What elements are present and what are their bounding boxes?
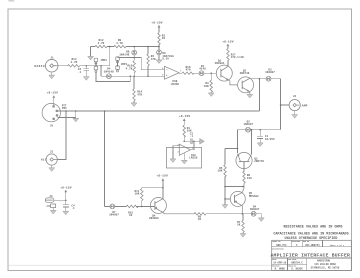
- title block: [272, 240, 352, 270]
- wire Q1 collector to R17: [227, 61, 229, 67]
- resistor R11 10K pull-up: [135, 188, 163, 207]
- svg-text:+8-15V: +8-15V: [60, 186, 72, 189]
- power +8-15V over R17: [222, 40, 234, 46]
- wire D8 jog to op-amp minus input: [118, 58, 165, 70]
- svg-text:6: 6: [162, 68, 163, 70]
- jumper JMP3: [94, 58, 107, 72]
- svg-text:1N4148: 1N4148: [119, 54, 129, 57]
- long signal line MIC to D3 node: [58, 79, 260, 111]
- wire U1A input to ground: [170, 146, 179, 163]
- J4 sleeve contact to ground: [46, 204, 56, 214]
- svg-text:4.7K: 4.7K: [98, 42, 105, 45]
- resistor R15 1K: [126, 205, 138, 217]
- wire R6 node left to base line: [225, 186, 244, 188]
- svg-text:150: 150: [247, 177, 252, 180]
- resistor R9 4.7K: [114, 39, 126, 48]
- svg-text:STARKVILLE, MS 39759: STARKVILLE, MS 39759: [311, 267, 340, 270]
- wire D1 to Q1 base: [204, 72, 216, 74]
- wire R16 to D1: [194, 72, 199, 74]
- resistor R6 150: [242, 171, 252, 192]
- svg-text:LM358: LM358: [189, 157, 197, 160]
- ground under J2: [292, 111, 298, 119]
- svg-text:J1: J1: [50, 56, 54, 59]
- power +8-15V at J4 node: [60, 186, 72, 204]
- svg-text:470: 470: [185, 69, 190, 72]
- wire JMP3 bottom to op-amp plus jog: [96, 73, 130, 82]
- svg-text:+8-15V: +8-15V: [151, 22, 163, 25]
- notes text block: [273, 226, 348, 241]
- svg-text:2: 2: [178, 152, 179, 154]
- wire Q1 emitter to Q2 base: [229, 80, 238, 85]
- svg-text:HRD754.C: HRD754.C: [291, 262, 303, 265]
- wire to R5 top: [225, 148, 238, 150]
- svg-text:1K: 1K: [237, 224, 241, 227]
- power jack J4: [45, 195, 54, 202]
- resistor R4 47K: [147, 47, 156, 77]
- svg-text:MIC: MIC: [62, 107, 67, 110]
- svg-text:sheet 1 of 1: sheet 1 of 1: [330, 244, 345, 247]
- capacitor C3 .1 with chassis arrow: [184, 133, 204, 145]
- resistor R3 10K to ground: [204, 73, 214, 96]
- svg-text:10K: 10K: [218, 170, 223, 173]
- wire R8 to Q5 node: [206, 213, 251, 215]
- svg-text:.1: .1: [78, 71, 82, 74]
- output diode line: D2 1N4007: [238, 120, 281, 132]
- transistor Q1 2N3904: [215, 60, 233, 82]
- ground stub on long line: [73, 111, 79, 122]
- resistor R7 1K to ground: [237, 214, 246, 237]
- svg-text:4148: 4148: [199, 68, 206, 71]
- svg-text:14-APR-10: 14-APR-10: [273, 262, 286, 265]
- wire R12/R9 junction down to radio line: [109, 47, 111, 66]
- svg-text:ALC: ALC: [41, 159, 47, 162]
- svg-text:HRD-754: HRD-754: [276, 244, 287, 247]
- wire AMP pin stub: [281, 104, 290, 106]
- transistor Q5 MPSA92: [230, 191, 259, 206]
- svg-text:J4: J4: [49, 195, 53, 198]
- resistor R14 47K to ground: [131, 76, 142, 106]
- resistor R13 4.7K: [68, 58, 80, 67]
- resistor R12 4.7K: [95, 39, 107, 48]
- svg-text:+8-15V: +8-15V: [179, 115, 191, 118]
- ground under Q2 emitter: [247, 92, 253, 98]
- Q4 base line: [105, 205, 155, 207]
- wire R13 to node, radio input line: [80, 65, 110, 67]
- svg-text:4.7K: 4.7K: [126, 68, 133, 71]
- power +8-15V over R1: [179, 115, 191, 121]
- wire MIC lower pin: [58, 116, 76, 118]
- wire Q5 base: [225, 198, 230, 200]
- resistor R1 10K: [183, 121, 192, 141]
- resistor R2 1K: [158, 27, 166, 46]
- svg-text:861-HRD754: 861-HRD754: [305, 244, 320, 247]
- svg-text:1K: 1K: [129, 214, 133, 217]
- connector J1 RADIO: [45, 59, 58, 72]
- diode D3 1N4007: [265, 68, 275, 81]
- top bias line: [91, 46, 159, 48]
- diode D8 1N4148: [119, 47, 136, 58]
- svg-text:J2: J2: [293, 95, 297, 98]
- svg-text:47K: 47K: [151, 58, 156, 61]
- transistor Q3 2N6746: [236, 152, 264, 168]
- connector J2 AMP: [289, 95, 308, 111]
- wire Q4 collector up: [162, 181, 164, 199]
- wire Q2 collector line to D3: [249, 78, 266, 80]
- svg-text:C: C: [296, 244, 298, 247]
- svg-text:1N4148: 1N4148: [104, 70, 114, 73]
- wire Q4 emitter to rail: [164, 213, 194, 214]
- svg-text:7: 7: [180, 71, 181, 73]
- op-amp U1A LM358: [178, 144, 198, 160]
- svg-text:1N4007: 1N4007: [265, 71, 275, 74]
- svg-text:1K: 1K: [162, 37, 166, 40]
- svg-text:1K: 1K: [198, 218, 202, 221]
- wire U1B output to R16: [179, 72, 182, 74]
- wire Q3 collector up to output node: [251, 130, 253, 154]
- diode D4 1N4007 to ground: [250, 205, 265, 221]
- svg-text:R. WONG: R. WONG: [275, 268, 286, 271]
- svg-text:2N6746: 2N6746: [254, 160, 264, 163]
- svg-text:CAPACITANCE VALUES ARE IN MICR: CAPACITANCE VALUES ARE IN MICROFARADS: [273, 232, 348, 236]
- connector J5 MIC: [42, 103, 67, 127]
- svg-text:RESISTANCE VALUES ARE IN OHMS: RESISTANCE VALUES ARE IN OHMS: [283, 226, 342, 230]
- wire Q3 base down to R6: [243, 162, 245, 172]
- svg-text:AMPLIFIER INTERFACE BUFFER: AMPLIFIER INTERFACE BUFFER: [270, 252, 350, 258]
- wire J1 to R13: [57, 65, 67, 67]
- ground under J3: [49, 165, 55, 171]
- wire Q5 emitter down to rail: [241, 206, 243, 214]
- wire J4 pin to power node: [54, 199, 66, 201]
- svg-text:+8-15V: +8-15V: [156, 174, 168, 177]
- svg-text:J5: J5: [50, 124, 54, 127]
- power +8-15V over Q4: [156, 174, 168, 181]
- svg-text:1N4007: 1N4007: [250, 208, 260, 211]
- resistor R8 1K: [194, 213, 206, 222]
- op-amp U1B LM358: [162, 66, 181, 86]
- svg-text:+8-15V: +8-15V: [47, 92, 59, 95]
- left long vertical to Q4 base line: [104, 111, 106, 206]
- svg-text:10K: 10K: [135, 193, 140, 196]
- svg-text:+8-15V: +8-15V: [222, 40, 234, 43]
- svg-text:DESCRIPTION: DESCRIPTION: [272, 249, 283, 251]
- svg-text:5.1V: 5.1V: [162, 58, 169, 61]
- svg-text:LM358: LM358: [171, 83, 180, 86]
- svg-text:.1: .1: [190, 135, 194, 138]
- svg-text:1N4007: 1N4007: [243, 123, 253, 126]
- faint scan marks: [8, 264, 272, 266]
- svg-text:1N4007: 1N4007: [109, 214, 119, 217]
- svg-text:10K: 10K: [204, 85, 209, 88]
- svg-text:MPSA92: MPSA92: [249, 195, 259, 198]
- svg-text:2N3904: 2N3904: [215, 62, 225, 65]
- op-amp plus input line: [101, 75, 164, 77]
- power +8-15V over R2: [151, 22, 163, 28]
- resistor R17 470-1/2W: [227, 46, 244, 60]
- svg-text:AMP: AMP: [302, 104, 308, 107]
- jumper JMP1: [116, 57, 128, 72]
- svg-text:JMP3: JMP3: [100, 59, 107, 62]
- resistor R5 10K: [218, 149, 227, 205]
- ground hang at left end of top line: [88, 47, 94, 60]
- power +8-15V over J5: [47, 92, 59, 104]
- wire node down to plus line: [100, 66, 102, 76]
- svg-text:470-1/2W: 470-1/2W: [231, 55, 244, 59]
- connector J3 ALC: [41, 150, 57, 165]
- diode D4 1N4148 on plus line: [104, 68, 114, 79]
- resistor R10 4.7K: [126, 58, 136, 77]
- svg-text:4.7K: 4.7K: [71, 61, 78, 64]
- wire D2 corner down to Q3 emitter: [237, 130, 239, 153]
- diode D1: [199, 65, 206, 76]
- wire U1A output up: [190, 141, 194, 150]
- svg-text:G. HEADY: G. HEADY: [291, 268, 303, 271]
- svg-text:2N3906: 2N3906: [149, 217, 159, 220]
- svg-text:2N6746: 2N6746: [240, 72, 250, 75]
- ground at base node: [222, 205, 228, 209]
- svg-text:47K: 47K: [137, 93, 142, 96]
- svg-text:J3: J3: [50, 150, 54, 153]
- svg-text:RADIO: RADIO: [34, 65, 45, 68]
- wire U1A input 2 to ground: [181, 153, 187, 164]
- wire D3 to corner down to AMP node: [271, 79, 281, 130]
- svg-text:.1: .1: [71, 207, 75, 210]
- ground under J1: [49, 72, 55, 79]
- svg-text:4.7K: 4.7K: [116, 42, 123, 45]
- svg-text:10/25V: 10/25V: [265, 137, 275, 141]
- zener D6 1N4733A 5.1V: [156, 47, 174, 64]
- U1A spare section box: [167, 147, 202, 168]
- capacitor C4 .1: [63, 205, 75, 215]
- wire ALC riser: [57, 111, 66, 160]
- capacitor C2 .1: [78, 66, 89, 80]
- capacitor C1 10/25V: [257, 130, 275, 147]
- resistor R16 470: [182, 66, 194, 75]
- svg-text:5: 5: [162, 75, 163, 77]
- transistor Q2 2N6746: [238, 69, 254, 93]
- transistor Q4 2N3906: [149, 198, 166, 221]
- diode D7 1N4007: [109, 204, 119, 217]
